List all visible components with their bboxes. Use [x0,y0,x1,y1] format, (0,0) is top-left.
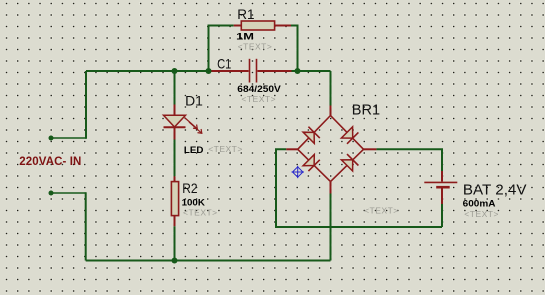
svg-text:<TEXT>: <TEXT> [238,42,273,52]
diode D-LL of BR1 [303,155,320,172]
wire R1 right riser [291,26,298,72]
bridge rectifier BR1 [286,106,376,194]
wire between D1 and R2 [174,140,176,177]
wire R1 left riser [209,26,234,72]
wire bridge bottom to bottom rail [330,194,332,261]
wire D1 branch top [174,71,176,105]
capacitor C1 [209,59,292,83]
terminal node AC live [49,136,54,141]
svg-text:D1: D1 [185,92,203,108]
wire battery minus down [441,204,443,227]
diode D-UR of BR1 [341,127,358,144]
wire bridge top riser [330,71,332,106]
resistor R1 [234,21,291,30]
svg-text:<TEXT>: <TEXT> [208,144,243,154]
svg-text:LED: LED [184,145,204,156]
svg-text:<TEXT>: <TEXT> [364,206,399,216]
svg-text:R2: R2 [182,180,197,196]
svg-text:R1: R1 [237,6,254,22]
svg-text:220VAC- IN: 220VAC- IN [19,156,81,168]
wire left terminal 1 to riser up [51,137,86,139]
junction node at D1 branch on top rail [172,68,178,74]
svg-text:600mA: 600mA [463,198,496,209]
wire left terminal 2 to riser down [51,192,86,194]
junction node at R2 branch on bottom rail [172,258,178,264]
wire bridge left vertex loop to battery minus [276,149,442,227]
diode D-LR of BR1 [341,154,358,171]
junction node at R1 left riser on top rail [206,68,212,74]
wire top rail y=70 from left riser to bridge-top riser [86,70,209,72]
junction node at R1 right riser on top rail [295,68,301,74]
wire bridge right vertex to battery plus [376,149,442,171]
svg-text:<TEXT>: <TEXT> [183,207,218,217]
battery BAT [424,171,457,204]
svg-text:C1: C1 [217,56,231,72]
wire below R2 to bottom rail [174,226,176,260]
terminal node AC neutral [49,191,54,196]
resistor R2 [171,176,178,226]
wire top rail right part after C1 [292,70,331,72]
origin marker of BR1 [292,166,305,178]
wire bottom rail [86,260,331,262]
svg-text:<TEXT>: <TEXT> [241,94,276,104]
svg-text:<TEXT>: <TEXT> [464,209,499,219]
svg-text:BR1: BR1 [352,102,380,118]
diode D-UL of BR1 [303,127,320,144]
LED D1 [164,105,202,140]
svg-text:BAT 2,4V: BAT 2,4V [463,182,527,199]
